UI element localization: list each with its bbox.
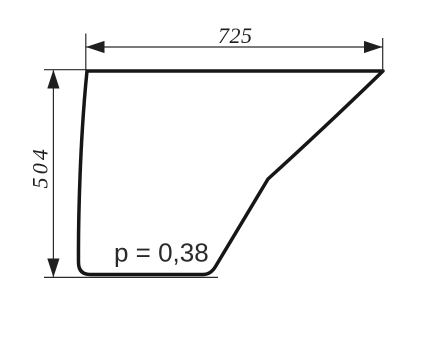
arrowhead up (504): [47, 70, 59, 89]
arrowhead left (725): [86, 41, 105, 53]
arrowhead right (725): [364, 41, 383, 53]
dimension line 725: [86, 46, 383, 48]
svg-text:725: 725: [218, 23, 253, 48]
extension line bottom (left dim 504): [44, 276, 218, 278]
svg-text:504: 504: [28, 146, 53, 189]
extension line left (top dim 725): [85, 34, 87, 72]
extension line right (top dim 725): [382, 38, 384, 71]
extension line top (left dim 504): [44, 69, 87, 71]
svg-text:p = 0,38: p = 0,38: [114, 238, 209, 268]
glass panel outline: [78, 71, 383, 275]
arrowhead down (504): [47, 259, 59, 278]
dimension line 504: [52, 71, 54, 277]
